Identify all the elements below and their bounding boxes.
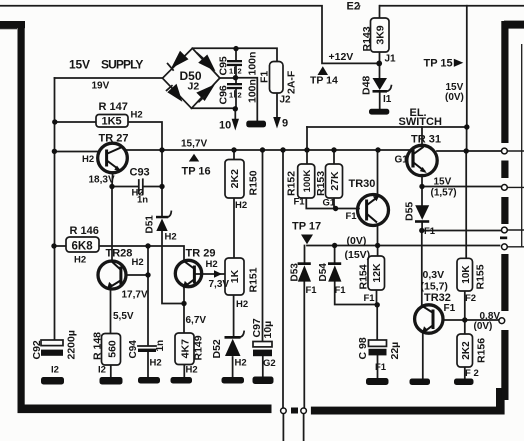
svg-text:TR 27: TR 27 — [99, 133, 129, 145]
svg-text:C 98: C 98 — [357, 337, 369, 359]
svg-text:R 146: R 146 — [70, 225, 99, 237]
svg-text:0,3V: 0,3V — [423, 269, 445, 281]
svg-text:TP 14: TP 14 — [310, 75, 338, 87]
svg-text:F1: F1 — [294, 197, 306, 208]
svg-text:R156: R156 — [476, 338, 488, 363]
svg-text:1K5: 1K5 — [102, 116, 122, 128]
svg-text:5,5V: 5,5V — [113, 311, 134, 322]
svg-text:(0V): (0V) — [474, 321, 493, 332]
svg-text:15V: 15V — [434, 177, 452, 188]
svg-text:D51: D51 — [145, 215, 156, 234]
svg-text:100K: 100K — [302, 170, 313, 193]
svg-text:J1: J1 — [385, 54, 397, 65]
svg-text:D55: D55 — [404, 202, 416, 221]
svg-text:2K2: 2K2 — [229, 169, 241, 188]
svg-text:10K: 10K — [461, 265, 472, 284]
svg-text:F1: F1 — [444, 303, 456, 314]
svg-text:1n: 1n — [155, 340, 166, 352]
svg-text:G1: G1 — [395, 155, 409, 166]
svg-text:D52: D52 — [211, 339, 223, 358]
svg-text:15,7V: 15,7V — [181, 139, 207, 150]
svg-text:100n: 100n — [247, 52, 259, 76]
svg-text:TP 15: TP 15 — [424, 58, 453, 70]
svg-text:H2: H2 — [236, 299, 248, 310]
svg-text:SWITCH: SWITCH — [399, 116, 442, 128]
svg-text:1: 1 — [229, 91, 233, 100]
svg-text:TP 17: TP 17 — [292, 221, 321, 233]
svg-text:H2: H2 — [82, 154, 94, 165]
svg-text:H2: H2 — [235, 358, 247, 369]
svg-text:F 2: F 2 — [465, 368, 479, 379]
svg-text:J2: J2 — [280, 95, 292, 106]
svg-text:SUPPLY: SUPPLY — [101, 58, 143, 72]
svg-text:100n: 100n — [247, 79, 259, 103]
svg-text:560: 560 — [106, 340, 118, 358]
svg-text:1K: 1K — [229, 269, 241, 283]
svg-text:C96: C96 — [218, 85, 230, 104]
svg-text:12K: 12K — [371, 263, 383, 283]
svg-text:TR28: TR28 — [106, 248, 133, 260]
svg-text:2K2: 2K2 — [461, 341, 472, 360]
svg-text:C94: C94 — [128, 340, 139, 359]
svg-text:R 148: R 148 — [92, 332, 104, 360]
svg-text:9: 9 — [282, 118, 288, 130]
svg-text:(0V): (0V) — [445, 92, 464, 103]
svg-text:F1: F1 — [375, 362, 387, 373]
svg-text:C92: C92 — [31, 340, 43, 359]
svg-text:R150: R150 — [248, 170, 260, 195]
svg-text:4K7: 4K7 — [180, 339, 192, 358]
svg-text:D48: D48 — [361, 76, 373, 95]
svg-text:J2: J2 — [188, 81, 200, 93]
svg-text:F1: F1 — [346, 211, 358, 222]
svg-text:18,3V: 18,3V — [89, 175, 115, 186]
svg-text:17,7V: 17,7V — [122, 290, 148, 301]
svg-text:27K: 27K — [329, 171, 341, 191]
svg-text:F2: F2 — [465, 293, 476, 304]
svg-text:10µ: 10µ — [262, 321, 274, 339]
svg-text:F1: F1 — [259, 71, 271, 83]
svg-text:R153: R153 — [315, 171, 327, 196]
svg-text:1n: 1n — [137, 195, 148, 206]
svg-text:TR30: TR30 — [349, 178, 376, 190]
svg-text:H2: H2 — [74, 255, 86, 266]
svg-text:E2: E2 — [347, 1, 360, 13]
svg-text:(15V): (15V) — [345, 249, 371, 261]
svg-text:10: 10 — [219, 120, 231, 132]
svg-text:H2: H2 — [131, 110, 143, 121]
svg-text:R 147: R 147 — [99, 101, 128, 113]
svg-text:I2: I2 — [51, 365, 59, 376]
svg-text:F1: F1 — [335, 285, 347, 296]
svg-text:F1: F1 — [306, 285, 318, 296]
svg-text:+12V: +12V — [329, 51, 354, 63]
svg-text:C95: C95 — [218, 56, 230, 75]
svg-text:3K9: 3K9 — [375, 25, 387, 44]
svg-text:H2: H2 — [165, 232, 177, 243]
svg-text:TR 31: TR 31 — [411, 134, 441, 146]
svg-text:G1: G1 — [323, 198, 336, 209]
svg-text:F1: F1 — [364, 293, 376, 304]
svg-text:7,3V: 7,3V — [209, 279, 230, 290]
svg-text:(1,57): (1,57) — [431, 188, 457, 199]
svg-text:H2: H2 — [150, 358, 162, 369]
svg-text:2: 2 — [238, 67, 242, 76]
svg-text:19V: 19V — [92, 81, 110, 92]
svg-text:D53: D53 — [290, 263, 301, 282]
svg-text:(0V): (0V) — [347, 235, 367, 247]
svg-text:6K8: 6K8 — [72, 241, 94, 253]
svg-text:I1: I1 — [383, 94, 392, 105]
svg-text:G2: G2 — [263, 358, 276, 369]
svg-text:TP 16: TP 16 — [182, 166, 211, 178]
svg-text:R152: R152 — [286, 171, 298, 196]
svg-text:D54: D54 — [318, 263, 329, 282]
svg-text:(15,7): (15,7) — [421, 281, 448, 293]
svg-text:6,7V: 6,7V — [186, 315, 207, 326]
svg-text:H2: H2 — [235, 200, 247, 211]
svg-text:2200µ: 2200µ — [66, 330, 78, 359]
svg-text:C93: C93 — [130, 167, 150, 179]
svg-text:2A-F: 2A-F — [286, 70, 298, 94]
svg-text:22µ: 22µ — [389, 342, 401, 360]
svg-text:F1: F1 — [424, 226, 436, 237]
svg-text:R155: R155 — [475, 264, 487, 289]
svg-text:R154: R154 — [358, 264, 370, 289]
svg-text:15V: 15V — [69, 58, 90, 72]
svg-text:R143: R143 — [361, 26, 373, 51]
svg-text:2: 2 — [238, 91, 242, 100]
svg-text:I2: I2 — [98, 365, 106, 376]
svg-text:H2: H2 — [186, 365, 198, 376]
svg-text:1: 1 — [229, 67, 233, 76]
svg-text:R149: R149 — [193, 335, 205, 360]
svg-text:R151: R151 — [248, 267, 260, 292]
svg-text:H2: H2 — [206, 259, 218, 270]
svg-text:H2: H2 — [132, 257, 144, 268]
svg-text:TR 29: TR 29 — [186, 248, 216, 260]
